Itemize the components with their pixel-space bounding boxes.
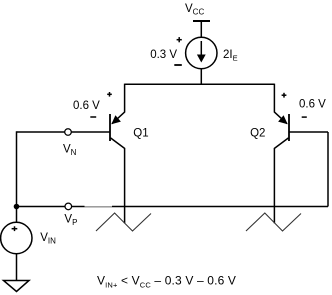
svg-text:0.3 V: 0.3 V (150, 49, 177, 61)
svg-text:2IE: 2IE (223, 49, 238, 63)
svg-text:0.6 V: 0.6 V (73, 100, 100, 112)
svg-text:Q2: Q2 (250, 127, 265, 139)
svg-text:VN: VN (63, 144, 77, 158)
svg-text:0.6 V: 0.6 V (299, 99, 326, 111)
svg-text:VP: VP (64, 213, 77, 227)
svg-text:VCC: VCC (185, 3, 204, 17)
svg-text:Q1: Q1 (133, 127, 148, 139)
svg-text:VIN+ < VCC – 0.3 V – 0.6 V: VIN+ < VCC – 0.3 V – 0.6 V (97, 274, 236, 290)
svg-text:VIN: VIN (40, 232, 56, 246)
